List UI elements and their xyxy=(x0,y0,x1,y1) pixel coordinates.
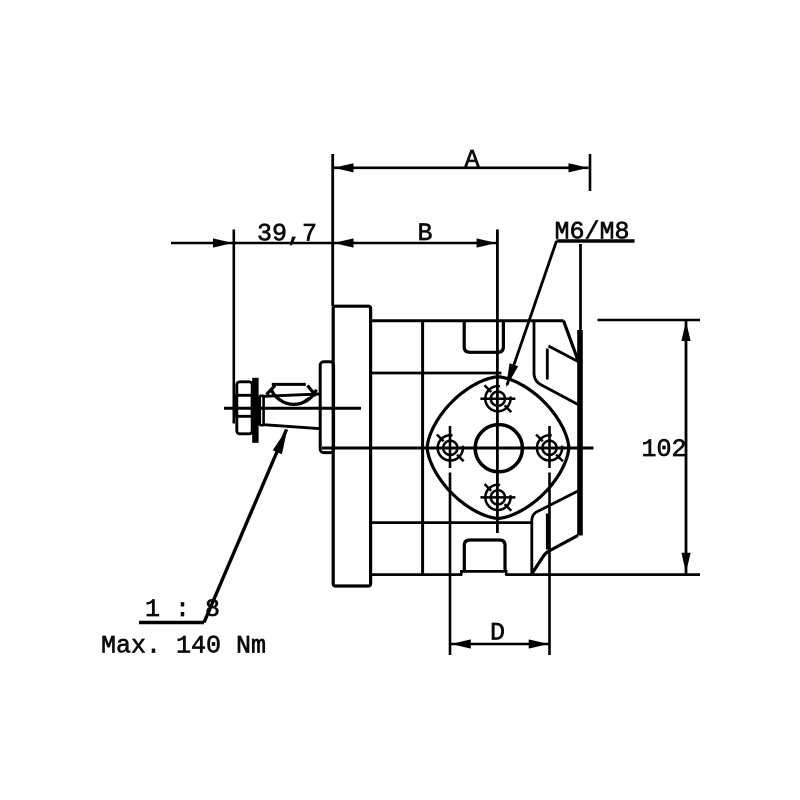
svg-text:M6/M8: M6/M8 xyxy=(555,218,630,247)
svg-text:D: D xyxy=(490,619,505,648)
svg-text:102: 102 xyxy=(642,435,687,464)
svg-text:A: A xyxy=(465,146,480,175)
svg-text:1 : 8: 1 : 8 xyxy=(145,595,220,624)
svg-text:Max. 140 Nm: Max. 140 Nm xyxy=(101,632,266,661)
svg-text:B: B xyxy=(418,219,433,248)
svg-text:39,7: 39,7 xyxy=(257,220,317,249)
